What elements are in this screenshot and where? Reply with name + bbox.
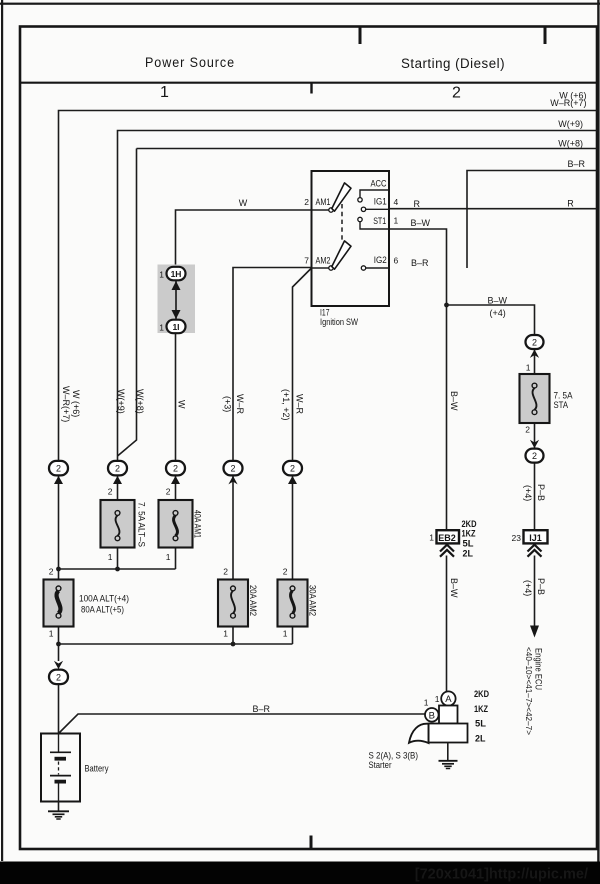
svg-text:2: 2 — [532, 451, 537, 461]
fuse 7.5A STA symbol — [532, 383, 537, 388]
ignition switch IG2 wire — [366, 267, 389, 269]
wire W(+8) vertical — [118, 149, 137, 457]
battery — [41, 734, 80, 802]
connector 2 battery column — [54, 661, 63, 669]
ignition switch AM2 lever — [332, 241, 351, 269]
svg-text:Starting (Diesel): Starting (Diesel) — [401, 56, 505, 71]
wire B-W EB2 to starter A — [446, 556, 448, 692]
wire c6 fuse to bus2 — [292, 627, 294, 645]
svg-text:IG2: IG2 — [374, 255, 387, 265]
svg-text:W (+6): W (+6) — [71, 390, 81, 417]
svg-text:1: 1 — [49, 629, 54, 639]
ignition switch AM1 contact — [329, 208, 333, 212]
svg-text:40A AM1: 40A AM1 — [193, 510, 203, 538]
svg-text:W: W — [176, 400, 186, 409]
svg-text:EB2: EB2 — [438, 533, 456, 543]
wire IJ1 to ECU arrow — [534, 556, 536, 627]
svg-text:2: 2 — [304, 197, 309, 207]
svg-text:23: 23 — [512, 533, 522, 543]
svg-text:W(+8): W(+8) — [135, 389, 145, 414]
ignition switch ST1 contact — [358, 217, 362, 221]
STA grey block — [520, 374, 550, 423]
connector 1H — [167, 267, 186, 281]
bus lower B-R — [59, 643, 293, 645]
svg-text:B–R: B–R — [253, 704, 271, 714]
bus upper — [59, 568, 176, 570]
svg-text:B–W: B–W — [488, 295, 508, 305]
ignition switch IG1 contact — [361, 207, 365, 211]
svg-text:2KD: 2KD — [474, 689, 489, 699]
svg-text:W(+9): W(+9) — [116, 389, 126, 414]
ignition switch ST1 wire — [360, 222, 389, 229]
wire W(+8) — [137, 148, 598, 150]
svg-text:2: 2 — [108, 487, 113, 497]
svg-text:[720x1041]http://upic.me/: [720x1041]http://upic.me/ — [415, 867, 588, 883]
connector 1H 1I grey block — [158, 265, 196, 334]
svg-text:W(+8): W(+8) — [558, 138, 583, 148]
svg-text:1: 1 — [424, 698, 429, 708]
svg-text:W–R(+7): W–R(+7) — [61, 386, 71, 422]
svg-text:1I: 1I — [172, 322, 179, 332]
svg-text:1: 1 — [526, 363, 531, 373]
arrow to Engine ECU — [530, 626, 539, 638]
svg-text:2L: 2L — [463, 549, 474, 559]
tick top 1 — [359, 28, 362, 45]
svg-text:B–R: B–R — [567, 159, 585, 169]
junction dot B-W/STA — [444, 303, 449, 308]
svg-text:1: 1 — [166, 552, 171, 562]
svg-text:B: B — [429, 710, 435, 721]
wire STA oval to fuse — [534, 349, 536, 374]
tick bottom — [310, 836, 313, 849]
starter motor box — [429, 724, 468, 743]
svg-text:80A ALT(+5): 80A ALT(+5) — [81, 604, 124, 614]
svg-text:W–R(+7): W–R(+7) — [550, 98, 586, 108]
ground starter — [447, 743, 449, 761]
svg-text:B–W: B–W — [449, 578, 459, 598]
svg-text:(+3): (+3) — [222, 396, 232, 412]
svg-text:IG1: IG1 — [374, 197, 387, 207]
ignition switch AM2 wire — [312, 267, 329, 269]
svg-text:1: 1 — [394, 216, 399, 226]
connector 2 column4 — [166, 461, 185, 476]
svg-text:2: 2 — [56, 464, 61, 474]
fuse 40A AM1 — [159, 500, 193, 548]
wire B-W from ST1 — [389, 229, 447, 532]
svg-text:Power Source: Power Source — [145, 55, 235, 70]
wire B-R top — [467, 171, 597, 269]
svg-text:2: 2 — [290, 464, 295, 474]
connector 1I — [167, 320, 186, 334]
ignition switch IG2 contact — [361, 266, 365, 270]
svg-text:2: 2 — [166, 487, 171, 497]
tick header divider — [310, 84, 312, 94]
svg-text:2: 2 — [532, 338, 537, 348]
svg-text:2: 2 — [173, 464, 178, 474]
svg-text:2L: 2L — [475, 734, 486, 744]
starter solenoid box — [439, 706, 458, 724]
svg-text:1: 1 — [160, 84, 169, 101]
header separator line — [20, 82, 597, 84]
connector 2 column1 — [49, 461, 68, 476]
wire c4 oval to fuse — [175, 476, 177, 501]
wire column4 below 1I — [175, 334, 177, 462]
tick top 2 — [544, 28, 547, 45]
svg-text:2: 2 — [49, 567, 54, 577]
wire c2 fuse to bus — [117, 548, 119, 570]
junction dot bus lower c5 — [231, 642, 236, 647]
junction dot bus lower c1 — [56, 642, 61, 647]
svg-text:7. 5A ALT–S: 7. 5A ALT–S — [137, 502, 147, 547]
wire AM2 to column 5 — [233, 268, 312, 462]
svg-text:AM2: AM2 — [316, 256, 331, 266]
scan edge line left — [1, 0, 3, 861]
wire c6 oval to fuse — [292, 476, 294, 580]
svg-text:R: R — [567, 199, 574, 209]
ground battery — [58, 802, 60, 812]
svg-text:Starter: Starter — [369, 760, 392, 771]
svg-text:2: 2 — [230, 464, 235, 474]
ignition switch ACC wire — [360, 190, 389, 198]
svg-text:1KZ: 1KZ — [474, 704, 488, 714]
connector 2 STA upper — [526, 335, 544, 349]
svg-text:6: 6 — [394, 256, 399, 266]
scan edge line right — [597, 0, 599, 862]
ignition switch dashed link — [341, 204, 343, 241]
svg-text:2: 2 — [115, 464, 120, 474]
svg-text:ACC: ACC — [371, 178, 387, 188]
wire diagonal battery to B-R — [59, 714, 426, 734]
svg-text:1KZ: 1KZ — [462, 529, 476, 539]
svg-text:ST1: ST1 — [373, 216, 386, 226]
svg-text:<40–10><41–7><42–7>: <40–10><41–7><42–7> — [524, 647, 534, 735]
svg-text:AM1: AM1 — [316, 197, 331, 207]
connector IJ1 — [524, 530, 548, 543]
svg-text:1: 1 — [159, 323, 164, 333]
svg-text:2: 2 — [525, 425, 530, 435]
svg-text:A: A — [445, 694, 452, 705]
wire W(+9) — [118, 131, 598, 462]
svg-text:B–R: B–R — [411, 258, 429, 268]
svg-text:100A ALT(+4): 100A ALT(+4) — [79, 593, 129, 603]
svg-text:STA: STA — [554, 400, 569, 410]
svg-text:4: 4 — [394, 197, 399, 207]
svg-text:(+1, +2): (+1, +2) — [281, 389, 291, 421]
svg-text:W–R: W–R — [294, 394, 304, 415]
svg-text:Ignition SW: Ignition SW — [320, 317, 358, 327]
ignition switch IG1 wire — [366, 208, 389, 210]
fuse 20A AM2 — [218, 580, 248, 627]
ignition switch AM2 contact — [329, 266, 333, 270]
svg-text:W: W — [239, 198, 248, 208]
svg-text:IJ1: IJ1 — [529, 533, 542, 543]
ignition switch I17 box — [312, 171, 390, 306]
wire c4 fuse to bus — [175, 548, 177, 570]
svg-text:1: 1 — [108, 552, 113, 562]
svg-text:(+4): (+4) — [523, 485, 533, 501]
junction dot bus upper left — [56, 567, 61, 572]
fuse 7.5A ALT-S — [101, 500, 135, 548]
connector EB2 — [437, 530, 460, 543]
wire battery oval to battery — [58, 685, 60, 734]
wire STA fuse to oval — [534, 423, 536, 448]
svg-text:7: 7 — [304, 256, 309, 266]
wire W(+6)/W-R(+7) top — [59, 111, 598, 462]
wire c1 oval to fuse — [58, 476, 60, 580]
starter terminal B — [425, 708, 439, 722]
svg-text:Engine ECU: Engine ECU — [534, 648, 544, 690]
wire c5 oval to fuse — [232, 476, 234, 580]
starter horn — [409, 724, 429, 743]
svg-text:2: 2 — [452, 85, 461, 102]
svg-text:20A AM2: 20A AM2 — [248, 585, 258, 616]
wire c5 fuse to bus2 — [232, 627, 234, 645]
svg-text:(+4): (+4) — [523, 580, 533, 596]
svg-text:5L: 5L — [475, 719, 487, 729]
fuse 100A ALT — [44, 580, 74, 627]
svg-text:2KD: 2KD — [462, 519, 477, 529]
svg-text:1H: 1H — [171, 269, 182, 279]
scan edge line top — [0, 3, 600, 5]
svg-text:B–W: B–W — [449, 391, 459, 411]
fuse 30A AM2 — [278, 580, 308, 627]
svg-text:2: 2 — [283, 567, 288, 577]
svg-text:5L: 5L — [463, 539, 475, 549]
connector pair arrows — [175, 281, 177, 319]
ignition switch AM1 lever — [332, 183, 351, 211]
svg-text:I17: I17 — [320, 308, 330, 318]
svg-text:Battery: Battery — [85, 764, 109, 775]
svg-text:1: 1 — [223, 629, 228, 639]
wire STA lower oval to IJ1 — [534, 462, 536, 532]
svg-text:30A AM2: 30A AM2 — [308, 585, 318, 616]
connector 2 column5 — [224, 461, 243, 476]
ignition switch AM1 wire — [312, 209, 329, 211]
svg-text:P–B: P–B — [536, 578, 546, 595]
svg-text:1: 1 — [435, 694, 440, 704]
junction dot bus upper — [115, 567, 120, 572]
svg-text:B–W: B–W — [411, 218, 431, 228]
wire B-W branch to STA — [447, 305, 535, 335]
svg-text:(+4): (+4) — [490, 308, 506, 318]
wire AM2 diagonal to column 6 — [293, 268, 312, 461]
wire R — [389, 208, 597, 210]
watermark bar — [0, 862, 600, 884]
wire c2 oval to fuse — [117, 476, 119, 501]
shield chevrons IJ1 — [528, 545, 542, 552]
svg-text:P–B: P–B — [536, 484, 546, 501]
starter terminal A — [441, 691, 455, 705]
ignition switch ACC contact — [358, 198, 362, 202]
svg-text:1: 1 — [159, 270, 164, 280]
shield chevrons EB2 — [440, 545, 454, 552]
svg-text:2: 2 — [223, 567, 228, 577]
svg-text:W(+9): W(+9) — [558, 119, 583, 129]
svg-text:W–R: W–R — [235, 394, 245, 415]
connector 2 column6 — [283, 461, 302, 476]
svg-text:1: 1 — [429, 533, 434, 543]
svg-text:2: 2 — [56, 672, 61, 682]
wire c1 fuse to bus2 — [58, 627, 60, 662]
connector 2 column2 — [108, 461, 127, 476]
svg-text:1: 1 — [283, 629, 288, 639]
svg-text:R: R — [414, 199, 421, 209]
wire W to AM1 — [176, 210, 312, 267]
